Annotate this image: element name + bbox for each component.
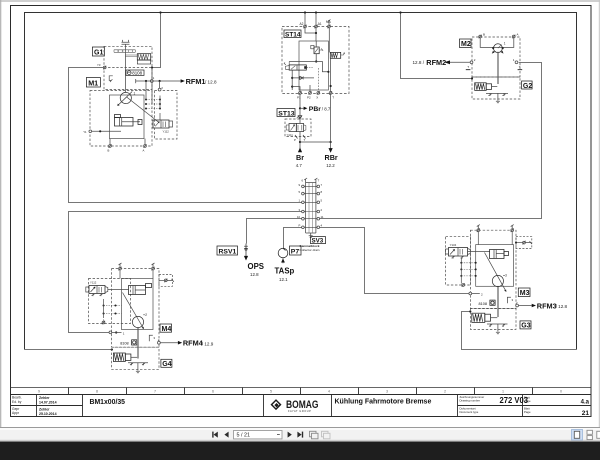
ST14 inner body box — [299, 41, 328, 90]
motor M1 circle — [117, 92, 135, 106]
G1 left drain port — [97, 63, 106, 69]
M1 bottom port A — [143, 139, 147, 153]
M1 valve body box — [110, 95, 145, 139]
svg-text:1: 1 — [504, 42, 506, 46]
svg-text:Ed. by: Ed. by — [12, 400, 22, 404]
pressure reducing valve — [311, 41, 323, 63]
G4 label box — [161, 359, 172, 367]
svg-text:8: 8 — [96, 390, 98, 394]
svg-text:Y112: Y112 — [90, 281, 97, 285]
M1 label box — [86, 78, 100, 88]
pump servo rod — [125, 55, 137, 57]
ST13 bottom ports — [294, 135, 306, 142]
svg-text:4: 4 — [328, 390, 330, 394]
SV3 rails — [306, 183, 316, 234]
valve block ST14 — [282, 20, 349, 100]
wire: SV3 port 4 to M3 port 2 — [318, 228, 469, 294]
svg-text:RFM4: RFM4 — [183, 339, 204, 348]
machine type BM1x00/35 — [90, 397, 126, 406]
prev page button — [224, 432, 228, 438]
svg-text:272 V03: 272 V03 — [500, 395, 529, 405]
svg-text:OPS: OPS — [248, 262, 264, 271]
label Br 4.7 — [296, 153, 304, 168]
ST14 enclosure dashed box — [282, 27, 349, 94]
RFM1 arrow — [181, 79, 185, 83]
M2 label box — [460, 39, 472, 48]
svg-text:M4: M4 — [162, 326, 172, 333]
pressure gauge P7 — [278, 246, 301, 263]
wire: ST13 to Br arrow — [299, 137, 301, 149]
G2 label box — [522, 81, 533, 89]
RBr arrow (down) — [329, 148, 333, 153]
motor M4 with brake G4 (rear left drive) — [86, 263, 214, 373]
inner frame / hydraulic bus rectangle — [10, 13, 591, 388]
svg-text:T: T — [332, 95, 334, 99]
port Y1 — [83, 130, 121, 134]
SV3 bottom drain tick — [309, 233, 313, 237]
svg-text:RBr: RBr — [325, 153, 338, 162]
svg-text:ST14: ST14 — [285, 31, 301, 38]
column number strip — [10, 388, 591, 395]
motor M2 circle — [492, 42, 506, 54]
solenoid valve Y112 (M4) — [86, 281, 108, 297]
G1 dashed enclosure — [104, 46, 152, 89]
RSV1 check symbol — [244, 244, 248, 257]
svg-text:B: B — [483, 33, 485, 37]
svg-text:4.7: 4.7 — [296, 163, 303, 168]
label 12.8 / RFM2 — [413, 58, 447, 67]
M4 valve to cylinder line — [108, 289, 129, 291]
M3 pilot valve sub-box — [446, 237, 471, 285]
label RBr 12.2 — [325, 153, 338, 168]
svg-text:10: 10 — [297, 215, 301, 219]
G1 label box — [92, 47, 104, 56]
wire: ST14 T port down to RBr arrow — [330, 94, 332, 148]
G4 dashed enclosure — [112, 347, 159, 369]
svg-text:G3: G3 — [521, 323, 530, 330]
svg-text:8108: 8108 — [479, 302, 487, 306]
BOMAG logo — [270, 399, 318, 413]
svg-text:P2: P2 — [307, 95, 311, 99]
servo cylinder M4 — [129, 284, 152, 295]
snapshot icon — [310, 431, 319, 439]
node: ST14 P1 line with PBr branch down to ST13 and Br — [299, 94, 301, 118]
M2 dashed enclosure — [472, 37, 520, 77]
pilot line dashed X — [317, 68, 319, 92]
first page button — [212, 432, 218, 438]
svg-text:P1: P1 — [297, 95, 301, 99]
svg-text:T: T — [519, 65, 521, 69]
M1 right valve sub-box — [155, 91, 178, 140]
SV3 label box — [311, 237, 326, 244]
svg-text:12.8 /: 12.8 / — [413, 60, 425, 65]
servo cylinder M1 — [115, 115, 143, 127]
svg-text:12.8: 12.8 — [250, 272, 259, 277]
M1 bottom port B — [108, 139, 112, 153]
proportional relief valve left — [284, 62, 314, 71]
M3 valve to cylinder line — [468, 251, 491, 253]
SV3 top ticks — [304, 178, 317, 183]
svg-text:TASp: TASp — [275, 267, 295, 276]
SV3 row 1 ports — [299, 183, 323, 188]
relief valve spring box G1 — [137, 54, 150, 64]
wire: cross link ST13 to RBr line — [300, 141, 332, 143]
svg-text:M1: M1 — [88, 79, 98, 88]
svg-text:T: T — [467, 65, 469, 69]
pump drive shaft — [122, 40, 130, 92]
svg-text:B: B — [108, 149, 110, 153]
svg-text:1: 1 — [134, 92, 136, 96]
svg-text:A: A — [517, 33, 519, 37]
relief valve with spring right — [329, 28, 345, 92]
internal drain runs — [291, 70, 310, 92]
svg-text:Y112: Y112 — [163, 130, 170, 134]
motor M3 with brake G3 (rear right drive) — [446, 225, 568, 334]
valve block ST13 — [277, 109, 311, 142]
svg-text:G4: G4 — [162, 361, 171, 368]
motor M2 with brake G2 (front right drive) — [413, 33, 533, 103]
next page button — [288, 432, 292, 438]
M4 port 3 bracket — [149, 335, 155, 341]
bottom port T — [329, 91, 334, 99]
svg-text:RFM3: RFM3 — [537, 302, 557, 311]
M3 feedback diagonal — [485, 253, 507, 292]
wire: right bus corner to G3 brake — [462, 310, 577, 349]
M2 drive shaft — [497, 52, 498, 84]
brake G4 anchor — [128, 363, 148, 373]
svg-text:A1: A1 — [318, 22, 322, 26]
motor M3 circle — [492, 274, 507, 287]
svg-text:1: 1 — [502, 390, 504, 394]
M1 dashed enclosure — [90, 91, 152, 147]
right side: single page view icon (selected) — [572, 430, 583, 441]
M3 label box — [518, 288, 530, 297]
svg-text:2: 2 — [145, 313, 147, 317]
svg-text:P7: P7 — [291, 249, 300, 256]
pdf viewer toolbar — [0, 428, 600, 460]
M4 sensor sub-box — [159, 275, 174, 287]
brake G3 anchor — [487, 324, 508, 334]
SV3 row 6 ports — [299, 224, 323, 229]
sensor box 8108 — [126, 70, 144, 76]
M2 internal gallery — [480, 38, 514, 47]
label OPS 12.8 — [248, 262, 264, 277]
svg-text:P: P — [294, 138, 296, 142]
drawing title — [335, 398, 432, 405]
svg-text:X: X — [316, 95, 318, 99]
svg-text:Document type: Document type — [460, 410, 479, 414]
snapshot icon 2 (disabled) — [322, 431, 331, 439]
M2 left port to RFM2 — [466, 58, 476, 70]
ST13 label box — [277, 109, 295, 117]
M4 feedback diagonal — [123, 293, 144, 330]
svg-text:Drawing number: Drawing number — [460, 398, 481, 402]
servo cylinder M3 — [490, 250, 509, 259]
svg-text:BM1x00/35: BM1x00/35 — [90, 397, 126, 406]
svg-text:5 / 21: 5 / 21 — [237, 433, 251, 439]
M3 top port A — [511, 225, 514, 232]
svg-text:7: 7 — [154, 390, 156, 394]
G2 dashed enclosure — [472, 77, 520, 99]
dates — [39, 396, 57, 416]
svg-text:8108: 8108 — [132, 71, 142, 76]
M3 dashed enclosure — [470, 230, 516, 308]
Br arrow (up) — [298, 148, 302, 153]
wire: G1 left port to SV3 port 1 (long left wire A) — [69, 66, 303, 202]
svg-text:ST13: ST13 — [278, 110, 294, 117]
svg-text:RSV1: RSV1 — [219, 249, 237, 256]
svg-text:25.10.2014: 25.10.2014 — [39, 412, 57, 416]
M3 port 2 label — [469, 292, 483, 297]
svg-text:A2: A2 — [300, 22, 304, 26]
wire: bus drop to ST14 port A2 — [304, 11, 306, 26]
bottom port X — [316, 91, 319, 99]
svg-text:12.2: 12.2 — [326, 163, 335, 168]
M3 top port B — [477, 225, 480, 232]
M4 port 1 — [109, 331, 125, 336]
M3 sensor 8108 — [479, 300, 496, 306]
G3 dashed enclosure — [470, 309, 516, 330]
M3 port 3 bracket — [507, 297, 513, 303]
title block — [10, 388, 591, 417]
svg-text:/ 12.9: / 12.9 — [202, 341, 214, 346]
collector block SV3 — [297, 178, 326, 252]
ST13 solenoid valve — [286, 119, 306, 137]
M3 drive shaft — [497, 287, 498, 317]
svg-text:G1: G1 — [94, 50, 103, 57]
motor M4 circle — [132, 313, 147, 328]
svg-text:Page: Page — [524, 410, 531, 414]
svg-text:FAYAT GROUP: FAYAT GROUP — [288, 409, 311, 413]
RSV1 down arrow — [244, 256, 248, 261]
svg-text:4.a: 4.a — [581, 400, 590, 406]
label RFM1 / 12.8 — [186, 77, 217, 86]
svg-text:Zehler: Zehler — [39, 396, 50, 400]
svg-text:T: T — [304, 138, 306, 142]
solenoid valve Y134 — [446, 243, 471, 259]
M3 pilot gallery dots — [460, 258, 476, 284]
port A2 — [300, 22, 307, 28]
G3 label box — [520, 321, 531, 329]
wire A2/A1 merge — [305, 28, 317, 41]
M3 port 2 RFM3 — [516, 301, 536, 308]
M4 dashed enclosure — [112, 269, 159, 348]
flushing valve strip — [114, 50, 135, 53]
svg-text:Y3: Y3 — [97, 63, 101, 67]
M4 top port A — [152, 263, 155, 270]
title block cells — [10, 394, 591, 417]
brake G3 spring — [472, 313, 498, 322]
M4 pilot valve sub-box — [89, 279, 131, 324]
bottom port P1 — [297, 91, 301, 99]
solenoid valve Y112 — [153, 120, 173, 134]
G1 case drain bracket — [109, 76, 113, 82]
label PBr / 8.7 — [309, 106, 331, 113]
M1 pilot gallery dots — [145, 96, 161, 121]
drawing number value — [500, 395, 590, 417]
svg-text:5: 5 — [270, 390, 272, 394]
check valve — [292, 76, 314, 79]
P7 up arrow — [282, 258, 284, 263]
svg-text:Y1: Y1 — [83, 130, 87, 134]
wire: bus drop to G1 pump block — [151, 11, 162, 104]
port MA — [326, 20, 332, 29]
svg-text:3: 3 — [386, 390, 388, 394]
svg-text:6: 6 — [212, 390, 214, 394]
wire: PBr arrow branch — [300, 107, 307, 110]
svg-text:Collector drain: Collector drain — [300, 248, 320, 252]
M4 port 2 RFM4 — [158, 338, 183, 345]
svg-text:A: A — [297, 116, 299, 120]
ST13 dashed box — [285, 119, 311, 137]
SV3 row 3 ports — [299, 199, 323, 204]
RFM2 arrow and wire — [444, 60, 470, 64]
port A triangle — [298, 116, 302, 119]
wire: bus drop to ST14 port A1 — [315, 11, 317, 26]
M4 top port B — [119, 263, 122, 270]
svg-text:Y134: Y134 — [450, 243, 457, 247]
editor/approver labels — [12, 396, 22, 415]
svg-text:Br: Br — [296, 153, 304, 162]
brake G2 anchor — [486, 93, 508, 102]
M4 valve body box — [122, 279, 154, 330]
port A1 — [315, 22, 322, 28]
M3 sensor sub-box — [515, 237, 532, 249]
svg-text:12.1: 12.1 — [279, 277, 288, 282]
label TASp 12.1 — [275, 267, 295, 283]
svg-text:RFM2: RFM2 — [426, 58, 446, 67]
svg-text:2: 2 — [444, 390, 446, 394]
bottom port P2 — [307, 91, 311, 99]
RFM1 take-off port — [136, 76, 181, 100]
svg-text:14.07.2014: 14.07.2014 — [39, 401, 57, 405]
brake G4 spring — [113, 353, 137, 362]
svg-text:11: 11 — [321, 215, 324, 219]
ST14 label box — [284, 30, 301, 38]
svg-text:A: A — [143, 149, 145, 153]
M2 port A — [512, 33, 518, 39]
label RFM3 / 12.8 — [537, 302, 568, 311]
ST14 internal gallery — [289, 62, 329, 73]
SV3 row 4 ports — [299, 208, 323, 213]
svg-text:Y104: Y104 — [287, 133, 294, 137]
svg-text:Zehler: Zehler — [39, 407, 50, 411]
wire: left bus corner to G4 brake — [25, 348, 114, 350]
right side: continuous view icon — [587, 430, 592, 439]
svg-text:/ 12.8: / 12.8 — [205, 80, 217, 85]
SV3 row 5 ports — [297, 215, 324, 220]
svg-text:M3: M3 — [520, 290, 530, 297]
svg-text:T: T — [318, 179, 320, 183]
SV3 row 2 ports — [299, 190, 323, 195]
svg-text:M2: M2 — [461, 41, 471, 48]
svg-text:PBr: PBr — [309, 106, 321, 113]
wire: SV3 port 3 to M4 port 1 (long left wire B) — [69, 212, 303, 334]
feedback link diagonal — [127, 97, 159, 123]
brake G2 spring — [475, 83, 498, 91]
shuttle valve RSV1 — [217, 244, 248, 261]
M3 port stubs — [478, 232, 512, 245]
wire: bus drop to G2 brake feed — [399, 11, 473, 79]
pump unit G1 with motor M1 (front left drive) — [83, 40, 217, 153]
M3 sub-box bottom port — [462, 283, 465, 287]
M4 label box — [160, 324, 172, 332]
svg-text:0: 0 — [560, 390, 562, 394]
svg-text:/ 12.8: / 12.8 — [556, 304, 568, 309]
svg-text:9: 9 — [38, 390, 40, 394]
svg-text:P: P — [299, 224, 301, 228]
svg-text:Appr: Appr — [12, 411, 20, 415]
M4 port stubs — [120, 270, 153, 278]
page number field — [234, 431, 283, 439]
wire: SV3 port P to gauge P7 — [284, 228, 303, 249]
last page button — [297, 432, 303, 438]
bottom black band — [0, 442, 600, 460]
svg-text:Kühlung Fahrmotore Bremse: Kühlung Fahrmotore Bremse — [335, 398, 432, 405]
M4 sensor 8108 — [120, 340, 137, 346]
wire: G2 right port to SV3 port 11 — [318, 63, 541, 219]
svg-text:RFM1: RFM1 — [186, 77, 206, 86]
svg-text:G2: G2 — [523, 83, 532, 90]
svg-text:8108: 8108 — [120, 342, 128, 346]
wire: SV3 port 10 to RSV1 — [247, 219, 303, 244]
M2 right port 1 — [513, 58, 522, 70]
M3 valve body box — [476, 245, 514, 287]
svg-text:/ 8.7: / 8.7 — [322, 106, 331, 111]
svg-text:21: 21 — [582, 410, 590, 417]
M2 port B — [479, 33, 485, 39]
drawing number section — [460, 395, 531, 414]
M4 drive shaft — [137, 328, 138, 359]
svg-text:3: 3 — [505, 274, 507, 278]
right side: edge icon — [597, 431, 600, 438]
label RFM4 / 12.9 — [183, 339, 214, 348]
M4 pilot gallery dots — [102, 299, 122, 324]
